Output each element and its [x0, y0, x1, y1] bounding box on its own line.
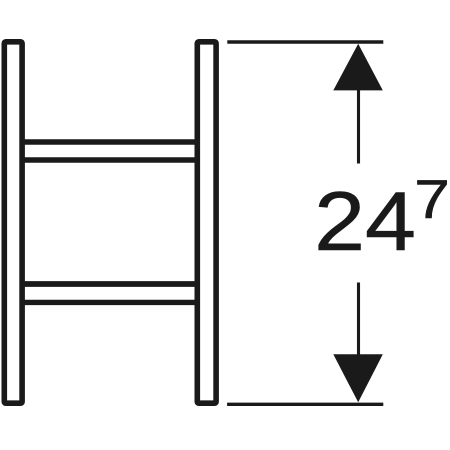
right rail: [197, 42, 216, 403]
crossbar 2 bottom edge: [23, 300, 199, 305]
crossbar 1 bottom edge: [23, 157, 199, 162]
dimension line lower segment: [357, 283, 360, 356]
arrowhead down: [333, 354, 383, 402]
dimension extension line bottom: [227, 403, 383, 406]
dimension value 24: [314, 175, 416, 268]
arrowhead up: [333, 44, 383, 91]
dimension line upper segment: [357, 88, 360, 164]
crossbar 2 top edge: [23, 281, 199, 287]
dimension superscript 7: [414, 168, 450, 230]
crossbar 1 top edge: [23, 139, 199, 144]
dimension extension line top: [227, 40, 383, 43]
svg-text:7: 7: [414, 168, 450, 230]
left rail: [4, 42, 22, 403]
svg-text:24: 24: [314, 175, 416, 268]
